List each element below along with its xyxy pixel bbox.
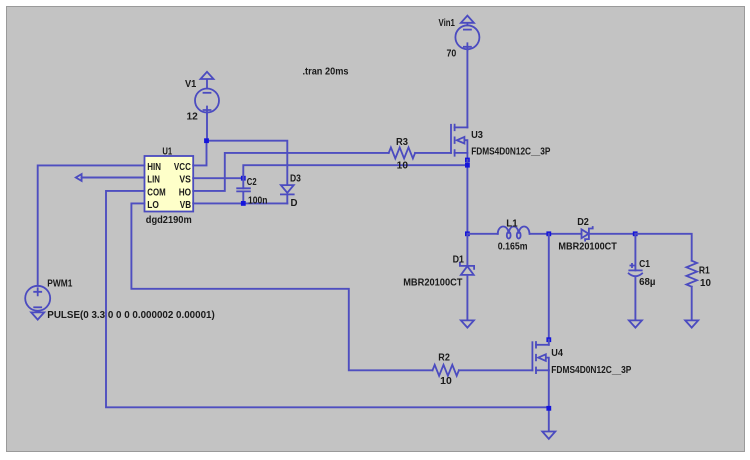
node C2 top bbox=[241, 176, 246, 181]
diode D2 bbox=[582, 227, 593, 241]
resistor R3 bbox=[389, 147, 415, 158]
svg-text:D3: D3 bbox=[290, 173, 301, 184]
svg-text:VB: VB bbox=[180, 200, 191, 211]
svg-text:dgd2190m: dgd2190m bbox=[146, 215, 192, 226]
node C2 bottom bbox=[241, 201, 246, 206]
svg-text:HIN: HIN bbox=[147, 162, 161, 173]
wire V1 to VCC node bbox=[206, 113, 208, 141]
port arrow on LIN bbox=[76, 174, 82, 181]
ground flag (flipped, above V1) bbox=[201, 72, 214, 89]
IC U1 dgd2190m bbox=[145, 146, 194, 226]
wire R1 to ground bbox=[691, 287, 693, 320]
svg-text:68µ: 68µ bbox=[639, 277, 656, 288]
ground under U4 bbox=[542, 432, 555, 439]
svg-text:C2: C2 bbox=[247, 177, 257, 188]
svg-text:FDMS4D0N12C__3P: FDMS4D0N12C__3P bbox=[551, 365, 631, 376]
wire VCC node to D3 top bbox=[207, 141, 288, 185]
svg-text:L1: L1 bbox=[506, 219, 518, 230]
wire U4 source to ground bbox=[548, 370, 550, 430]
svg-text:LO: LO bbox=[147, 200, 159, 211]
svg-text:D2: D2 bbox=[577, 217, 589, 228]
wire Vin1 to U3 drain bbox=[466, 49, 468, 127]
svg-text:12: 12 bbox=[187, 111, 199, 122]
svg-text:0.165m: 0.165m bbox=[498, 242, 528, 253]
mosfet U4 bbox=[532, 342, 548, 373]
wire VS to C2 top bbox=[193, 177, 243, 179]
diode D1 bbox=[460, 234, 474, 319]
node U4 drain pin bbox=[546, 337, 551, 342]
wire switch node to L1 bbox=[467, 233, 497, 235]
svg-text:FDMS4D0N12C__3P: FDMS4D0N12C__3P bbox=[471, 146, 551, 157]
svg-text:VCC: VCC bbox=[174, 162, 191, 173]
svg-text:U4: U4 bbox=[551, 348, 563, 359]
svg-text:MBR20100CT: MBR20100CT bbox=[558, 241, 617, 252]
svg-text:PULSE(0 3.3 0 0 0 0.000002 0.0: PULSE(0 3.3 0 0 0 0.000002 0.00001) bbox=[47, 310, 215, 321]
wire LO to R2 row bbox=[131, 203, 432, 370]
node switch junction bbox=[465, 231, 470, 236]
svg-text:PWM1: PWM1 bbox=[47, 279, 72, 290]
svg-text:D1: D1 bbox=[453, 254, 465, 265]
ground under C1 bbox=[629, 320, 642, 327]
wire COM down and along bottom bbox=[106, 191, 549, 407]
ground under R1 bbox=[685, 320, 698, 327]
wire branch down to U4 drain bbox=[548, 234, 550, 340]
node U3 source / C2 line junction bbox=[465, 163, 470, 168]
node U4 source / bottom rail junction bbox=[546, 406, 551, 411]
voltage source Vin1 bbox=[455, 25, 479, 50]
wire U3 source down bbox=[466, 160, 468, 234]
node U3 source pin bbox=[465, 158, 470, 163]
wire VB row to D3 bottom bbox=[193, 202, 287, 204]
node C1 top bbox=[633, 231, 638, 236]
diode D3 bbox=[281, 185, 294, 203]
svg-text:R1: R1 bbox=[699, 266, 710, 277]
svg-text:HO: HO bbox=[179, 187, 191, 198]
capacitor C2 bbox=[237, 178, 250, 203]
wire LIN bbox=[82, 177, 145, 179]
svg-text:D: D bbox=[291, 198, 298, 209]
resistor R2 bbox=[433, 365, 459, 376]
wire R3 to U3 gate bbox=[415, 152, 451, 154]
voltage source V1 bbox=[195, 89, 219, 114]
svg-text:V1: V1 bbox=[185, 79, 197, 90]
wire HO up to gate line bbox=[193, 153, 389, 191]
svg-text:COM: COM bbox=[147, 187, 165, 198]
ground flag (flipped, above Vin1) bbox=[461, 16, 474, 26]
svg-text:VS: VS bbox=[179, 175, 191, 186]
wire U4 drain stub bbox=[548, 340, 550, 345]
svg-text:MBR20100CT: MBR20100CT bbox=[403, 278, 462, 289]
svg-text:LIN: LIN bbox=[147, 175, 160, 186]
node VCC junction bbox=[204, 138, 209, 143]
inductor L1 bbox=[498, 227, 530, 234]
wire output node to R1 bbox=[635, 234, 692, 261]
svg-text:R2: R2 bbox=[438, 353, 450, 364]
svg-text:10: 10 bbox=[440, 376, 452, 387]
capacitor C1 bbox=[629, 234, 642, 319]
wire L1 to D2 bbox=[530, 233, 582, 235]
svg-text:100n: 100n bbox=[248, 195, 267, 206]
wire VCC stub to V1 node bbox=[193, 141, 206, 166]
svg-text:U3: U3 bbox=[471, 130, 483, 141]
svg-text:.tran 20ms: .tran 20ms bbox=[303, 67, 349, 78]
wire HIN to PWM1 bbox=[38, 165, 145, 285]
wire R2 to U4 gate bbox=[459, 369, 533, 371]
voltage source PWM1 bbox=[25, 286, 50, 311]
mosfet U3 bbox=[451, 125, 467, 160]
svg-text:70: 70 bbox=[447, 49, 457, 60]
resistor R1 bbox=[686, 261, 697, 287]
node U4 drain branch bbox=[546, 231, 551, 236]
wire C2 riser to U3 source line bbox=[243, 165, 467, 178]
svg-text:10: 10 bbox=[397, 160, 409, 171]
ground under PWM1 bbox=[31, 312, 44, 319]
svg-text:R3: R3 bbox=[396, 137, 408, 148]
wire D2 to output node bbox=[589, 233, 635, 235]
svg-text:U1: U1 bbox=[162, 146, 172, 157]
svg-text:10: 10 bbox=[700, 278, 711, 289]
ground under D1 bbox=[461, 320, 474, 327]
svg-text:C1: C1 bbox=[639, 259, 650, 270]
svg-text:Vin1: Vin1 bbox=[439, 18, 456, 29]
